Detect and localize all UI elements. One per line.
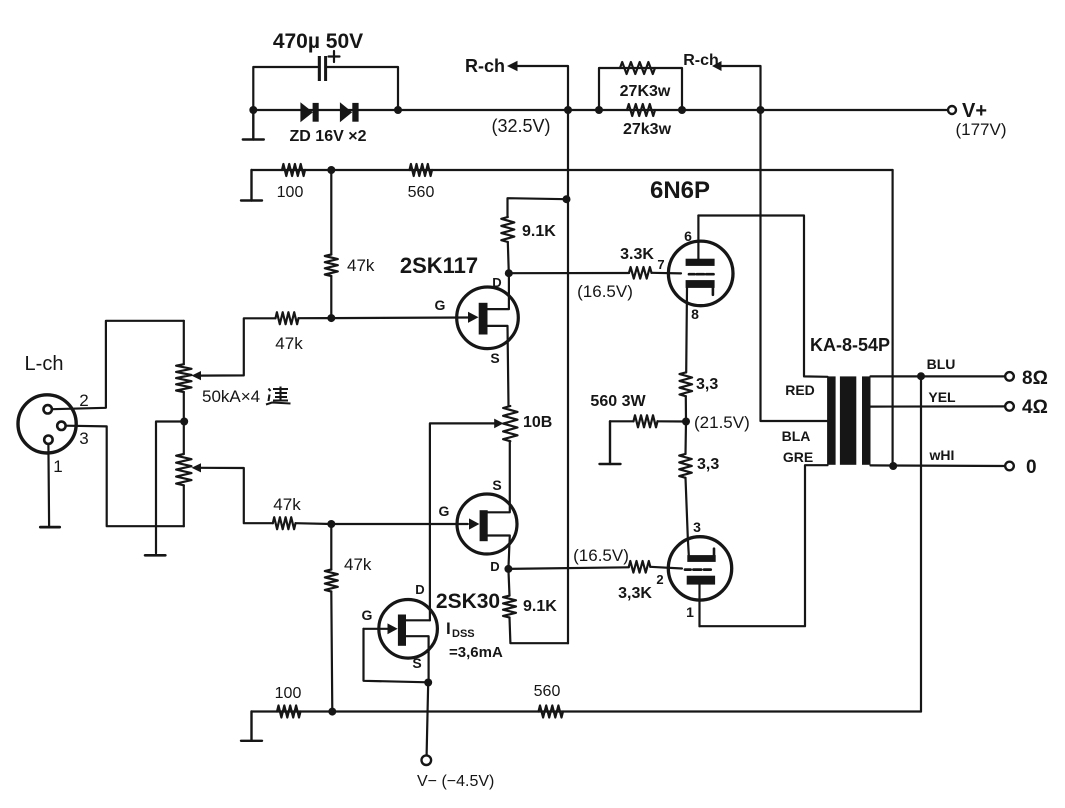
- tube U1 envelope: [668, 241, 733, 306]
- wire drain2 to 3.3K lower: [508, 567, 628, 569]
- wire pot VR1b bottom lead: [183, 485, 185, 526]
- svg-text:(16.5V): (16.5V): [577, 282, 633, 301]
- label pin 2 tube: [656, 572, 663, 587]
- svg-text:GRE: GRE: [783, 449, 813, 465]
- tube U2 cathode plate: [687, 555, 715, 562]
- label 47k R6: [344, 555, 372, 574]
- wire gate1 line: [331, 316, 468, 319]
- tube U2 envelope: [668, 537, 731, 600]
- label 3,3 R14: [697, 456, 719, 473]
- wire cap loop top-right: [327, 67, 398, 110]
- svg-text:G: G: [362, 607, 373, 623]
- resistor R14 3.3 lower: [679, 454, 692, 478]
- label 3.3K R9: [620, 246, 654, 263]
- svg-text:3,3K: 3,3K: [618, 585, 652, 602]
- tube U1 grid dashes: [689, 273, 714, 276]
- svg-text:RED: RED: [785, 382, 815, 398]
- node WHI ground tap: [889, 462, 897, 470]
- resistor R12 27K3W bottom: [627, 104, 655, 116]
- label (21.5V): [694, 413, 750, 432]
- wire drain1 to 3.3K: [509, 272, 629, 274]
- zener diode ZD2: [340, 102, 359, 122]
- tube U1 cathode plate: [686, 280, 715, 288]
- potentiometer VR1b 50kA: [176, 454, 191, 485]
- wire gate-source tie loop: [364, 629, 429, 683]
- resistor R4 47k gate upper: [276, 312, 299, 324]
- svg-text:R-ch: R-ch: [465, 56, 505, 76]
- wire gate2 line: [331, 523, 468, 525]
- arrow wiper VR1a: [192, 371, 202, 380]
- wire R6 bottom lead: [331, 592, 332, 712]
- label V+: [962, 100, 987, 122]
- label 560 bottom: [534, 683, 561, 700]
- svg-text:2: 2: [656, 572, 663, 587]
- svg-text:27k3w: 27k3w: [623, 121, 672, 138]
- wire rail to 9.1K R7: [508, 198, 567, 217]
- wire U2 pin1 anode lead: [698, 585, 700, 627]
- label =3,6mA: [449, 644, 503, 661]
- terminal V-: [422, 755, 432, 765]
- svg-text:DSS: DSS: [452, 628, 475, 640]
- label BLA: [782, 428, 811, 444]
- label pin 7: [657, 257, 664, 272]
- svg-text:27K3w: 27K3w: [620, 83, 671, 100]
- svg-text:100: 100: [275, 685, 302, 702]
- resistor R16 100 bottom: [277, 706, 301, 718]
- terminal V+: [948, 106, 956, 114]
- label 27k3w bottom: [623, 121, 672, 138]
- label pin 3: [79, 429, 88, 448]
- label 2SK30: [436, 590, 500, 613]
- wire bottom return line: [252, 710, 922, 712]
- svg-text:3,3: 3,3: [696, 376, 718, 393]
- wire R14 to U2 pin3: [686, 478, 689, 555]
- svg-text:L-ch: L-ch: [25, 353, 64, 375]
- arrow R-ch right: [712, 61, 722, 71]
- label S of Q1: [490, 350, 499, 366]
- wire V+ rail y110: [253, 109, 948, 111]
- capacitor C1 polarity +: [329, 51, 340, 62]
- node gate1 47k junction: [327, 314, 335, 322]
- resistor R15 560 3W leads: [610, 420, 686, 422]
- svg-text:BLA: BLA: [782, 428, 811, 444]
- svg-text:1: 1: [686, 604, 694, 620]
- label pin 2: [79, 391, 88, 410]
- arrow R-ch left: [507, 61, 518, 72]
- terminal 0 ohm: [1005, 462, 1014, 471]
- wire Q3 gate lead: [364, 628, 388, 630]
- svg-text:ZD 16V ×2: ZD 16V ×2: [290, 128, 367, 145]
- label 560 top: [408, 184, 435, 201]
- resistor R13 3.3 upper: [680, 372, 693, 396]
- svg-text:0: 0: [1026, 457, 1037, 478]
- wire cap loop top-left: [253, 67, 317, 110]
- label 560 3W: [590, 393, 646, 410]
- terminal 8 ohm: [1005, 372, 1014, 381]
- wire wiper VR1b to 47k: [201, 468, 273, 523]
- node Q3 gate-source tie: [424, 679, 432, 687]
- svg-text:S: S: [492, 477, 501, 493]
- arrow 10B wiper: [494, 419, 503, 429]
- label KA-8-54P: [810, 335, 890, 355]
- label 100 bottom: [275, 685, 302, 702]
- svg-text:560: 560: [408, 184, 435, 201]
- svg-text:BLU: BLU: [927, 356, 956, 372]
- label G of Q3: [362, 607, 373, 623]
- svg-text:D: D: [490, 559, 499, 574]
- tube U1 cathode hook: [712, 288, 715, 295]
- label BLU: [927, 356, 956, 372]
- node BLU feedback tap: [917, 372, 925, 380]
- svg-text:560: 560: [534, 683, 561, 700]
- wire Q3 drain lead: [406, 619, 430, 621]
- tube U2 anode plate: [687, 576, 715, 585]
- wire B+ rail drop: [567, 199, 569, 643]
- wire Q2 source lead: [488, 441, 510, 512]
- resistor R7 9.1K: [501, 217, 514, 242]
- svg-text:47k: 47k: [347, 256, 375, 275]
- node drain2 16.5V: [504, 565, 512, 573]
- wire 10B wiper to Q3 drain: [430, 423, 494, 620]
- label 4 ohm: [1022, 397, 1048, 418]
- label YEL: [928, 389, 956, 405]
- transistor Q3 gate arrow: [388, 623, 398, 634]
- label 47k R3: [347, 256, 375, 275]
- transistor Q2 gate arrow: [469, 518, 479, 529]
- label pin 1: [53, 457, 62, 476]
- svg-text:560 3W: 560 3W: [590, 393, 646, 410]
- svg-text:10B: 10B: [523, 414, 552, 431]
- ground pin1: [40, 526, 59, 529]
- svg-text:47k: 47k: [344, 555, 372, 574]
- label S of Q3: [412, 655, 421, 671]
- node junction right cap: [394, 106, 402, 114]
- resistor VR2 10B: [503, 406, 517, 441]
- tube U1 anode plate: [686, 259, 715, 266]
- wire U1 pin6 anode lead: [697, 216, 699, 259]
- svg-text:(21.5V): (21.5V): [694, 413, 750, 432]
- transistor Q3 2SK30 body: [379, 600, 438, 659]
- label 50kA x4: [202, 387, 260, 406]
- transformer T1 core bar: [840, 376, 856, 464]
- transistor Q3 gate bar: [398, 615, 406, 646]
- wire Q3 source lead: [403, 636, 429, 682]
- transformer T1 secondary bar: [862, 376, 871, 464]
- svg-text:4Ω: 4Ω: [1022, 397, 1048, 418]
- wire U1 anode to RED: [698, 216, 827, 377]
- wire R8 to rail corner: [510, 618, 569, 644]
- svg-text:6: 6: [684, 228, 692, 244]
- wire BLU tap: [871, 375, 1006, 377]
- resistor R6 47k vertical: [325, 570, 338, 592]
- node 27K left: [595, 106, 603, 114]
- wire Q1 drain lead: [488, 273, 509, 309]
- resistor R8 9.1K: [503, 596, 516, 618]
- resistor R5 47k gate lower: [273, 517, 296, 529]
- label WHI: [929, 447, 955, 463]
- svg-text:V− (−4.5V): V− (−4.5V): [417, 773, 494, 790]
- node 27K right: [678, 106, 686, 114]
- svg-text:S: S: [490, 350, 499, 366]
- node 32.5V on V+ line: [564, 106, 572, 114]
- label 3,3K R10: [618, 585, 652, 602]
- wire R6 top lead: [330, 524, 332, 570]
- svg-text:2SK30: 2SK30: [436, 590, 500, 613]
- svg-text:3.3K: 3.3K: [620, 246, 654, 263]
- transistor Q1 2SK117 body: [457, 287, 519, 349]
- node output 21.5V: [682, 418, 690, 426]
- transistor Q1 gate arrow: [468, 312, 479, 323]
- arrow wiper VR1b: [192, 463, 202, 472]
- wire pin2 lead: [52, 321, 184, 409]
- wire Q1 source to 10B: [509, 405, 511, 407]
- svg-text:(16.5V): (16.5V): [573, 546, 629, 565]
- label G of Q1: [435, 297, 446, 313]
- label R-ch right: [683, 52, 719, 69]
- label Idss: [446, 619, 475, 640]
- kanji ren of 4-gang: [266, 387, 291, 405]
- label L-ch: [25, 353, 64, 375]
- label 100 top: [277, 184, 304, 201]
- wire YEL tap: [871, 405, 1006, 407]
- wire Q3 source to V-: [427, 683, 429, 756]
- connector J1 pin 2: [44, 405, 52, 413]
- svg-text:(32.5V): (32.5V): [491, 116, 550, 136]
- capacitor C1 470u plates: [318, 56, 327, 81]
- label pin 1: [686, 604, 694, 620]
- label D of Q2: [490, 559, 499, 574]
- svg-text:G: G: [435, 297, 446, 313]
- wire WHI tap: [871, 464, 1006, 467]
- label RED: [785, 382, 815, 398]
- svg-text:=3,6mA: =3,6mA: [449, 644, 503, 661]
- wire 47k R3 bottom lead: [330, 276, 332, 318]
- label 9.1K R7: [522, 223, 556, 240]
- label GRE: [783, 449, 813, 465]
- label 6N6P: [650, 177, 710, 204]
- resistor R15 560 3W: [634, 415, 658, 427]
- resistor R1 100: [282, 164, 305, 176]
- wire Q2 drain lead: [488, 536, 510, 569]
- svg-text:7: 7: [657, 257, 664, 272]
- svg-text:6N6P: 6N6P: [650, 177, 710, 204]
- wire R-ch arrow to rail: [517, 66, 568, 199]
- label D of Q1: [492, 275, 501, 290]
- label ZD 16V x2: [290, 128, 367, 145]
- svg-text:8: 8: [691, 306, 699, 322]
- label 47k R5: [273, 495, 301, 514]
- wire pot ground tap: [156, 422, 184, 554]
- wire wiper VR1a to 47k: [201, 318, 276, 375]
- resistor R11 27K3W top: [620, 62, 655, 74]
- ground 560 3W: [600, 421, 621, 464]
- resistor R10 3.3K grid lower: [629, 561, 651, 573]
- svg-text:V+: V+: [962, 100, 987, 122]
- svg-text:47k: 47k: [273, 495, 301, 514]
- label (16.5V) lower: [573, 546, 629, 565]
- svg-text:3: 3: [693, 519, 701, 535]
- ground bottom left: [241, 712, 262, 741]
- wire U1 pin8 cathode lead: [685, 288, 688, 373]
- wire R-ch2 corner down to BLA: [721, 66, 828, 421]
- resistor R17 560 bottom: [539, 706, 564, 718]
- svg-text:D: D: [492, 275, 501, 290]
- label G of Q2: [439, 503, 450, 519]
- svg-text:50kA×4: 50kA×4: [202, 387, 260, 406]
- svg-text:470µ 50V: 470µ 50V: [273, 30, 363, 53]
- ground below left cap node: [243, 110, 264, 140]
- connector J1 pin 3: [57, 422, 65, 430]
- transistor Q2 gate bar: [480, 510, 488, 541]
- transistor Q1 gate bar: [479, 303, 488, 335]
- connector J1 pin 1: [44, 436, 52, 444]
- wire 47k R3 top lead: [330, 170, 332, 255]
- label 9.1K R8: [523, 598, 557, 615]
- svg-text:9.1K: 9.1K: [522, 223, 556, 240]
- wire pin3 lead: [66, 426, 184, 527]
- label (177V): [955, 120, 1006, 139]
- label 47k R4: [275, 334, 303, 353]
- ground pot center: [145, 554, 165, 557]
- svg-text:8Ω: 8Ω: [1022, 368, 1048, 389]
- wire R4 to gate node: [299, 317, 332, 319]
- node 100/560 junction: [327, 166, 335, 174]
- label D of Q3: [415, 582, 424, 597]
- resistor R3 47k vertical: [325, 255, 338, 277]
- svg-text:G: G: [439, 503, 450, 519]
- label pin 6: [684, 228, 692, 244]
- wire drain2 to R8: [508, 569, 509, 596]
- tube U2 grid dashes: [685, 568, 711, 571]
- label 10B: [523, 414, 552, 431]
- svg-text:9.1K: 9.1K: [523, 598, 557, 615]
- resistor R9 3.3K grid upper: [629, 267, 652, 279]
- wire R5 to gate node: [296, 522, 332, 525]
- svg-text:3: 3: [79, 429, 88, 448]
- connector J1 XLR shell: [18, 395, 76, 453]
- wire 3.3K to grid pin7: [652, 272, 682, 275]
- label V- (-4.5V): [417, 773, 494, 790]
- svg-text:D: D: [415, 582, 424, 597]
- wire R7 to drain node: [508, 242, 509, 273]
- capacitor C1 value label: [273, 30, 363, 53]
- label 2SK117: [400, 253, 478, 278]
- wire feedback drop right x892: [891, 170, 893, 466]
- svg-text:wHI: wHI: [929, 447, 955, 463]
- label pin 8: [691, 306, 699, 322]
- node drain1 16.5V: [505, 269, 513, 277]
- transistor Q2 2SK117 body: [457, 494, 517, 554]
- svg-text:47k: 47k: [275, 334, 303, 353]
- node B+ at right rail: [757, 106, 765, 114]
- wire pin1 lead: [47, 444, 50, 526]
- label 27K3w top: [620, 83, 671, 100]
- label R-ch left: [465, 56, 505, 76]
- label S of Q2: [492, 477, 501, 493]
- node bottom 47k junction: [328, 708, 336, 716]
- label 8 ohm: [1022, 368, 1048, 389]
- wire Q1 source lead: [488, 326, 509, 406]
- wire grid-return line y170: [252, 169, 893, 171]
- svg-text:100: 100: [277, 184, 304, 201]
- potentiometer VR1a 50kA: [176, 364, 191, 392]
- node rail tap upper: [563, 195, 571, 203]
- wire feedback from BLU: [920, 376, 922, 711]
- ground left of line y170: [241, 170, 262, 201]
- svg-text:1: 1: [53, 457, 62, 476]
- svg-text:S: S: [412, 655, 421, 671]
- label 3,3 R13: [696, 376, 718, 393]
- wire R10 to grid pin2: [650, 567, 682, 569]
- resistor R2 560: [410, 164, 433, 176]
- svg-text:(177V): (177V): [955, 120, 1006, 139]
- label pin 3: [693, 519, 701, 535]
- wire between pots: [183, 392, 185, 454]
- svg-text:KA-8-54P: KA-8-54P: [810, 335, 890, 355]
- label (16.5V) upper: [577, 282, 633, 301]
- wire R13 to node: [685, 396, 687, 421]
- wire 27K loop: [599, 68, 682, 110]
- svg-text:YEL: YEL: [928, 389, 956, 405]
- node junction left cap: [249, 106, 257, 114]
- terminal 4 ohm: [1005, 402, 1014, 411]
- zener diode ZD1: [300, 102, 318, 122]
- svg-text:2: 2: [79, 391, 88, 410]
- node gate2 47k junction: [327, 520, 335, 528]
- wire pot VR1a top lead: [183, 321, 185, 364]
- tube U2 cathode hook: [713, 549, 716, 555]
- wire U2 anode to GRE: [700, 465, 828, 626]
- svg-text:2SK117: 2SK117: [400, 253, 478, 278]
- transformer T1 primary bar: [827, 376, 836, 464]
- label 0 ohm: [1026, 457, 1037, 478]
- wire node to R14: [684, 422, 687, 454]
- label (32.5V): [491, 116, 550, 136]
- svg-text:I: I: [446, 619, 451, 638]
- svg-text:3,3: 3,3: [697, 456, 719, 473]
- node pot center junction: [180, 418, 188, 426]
